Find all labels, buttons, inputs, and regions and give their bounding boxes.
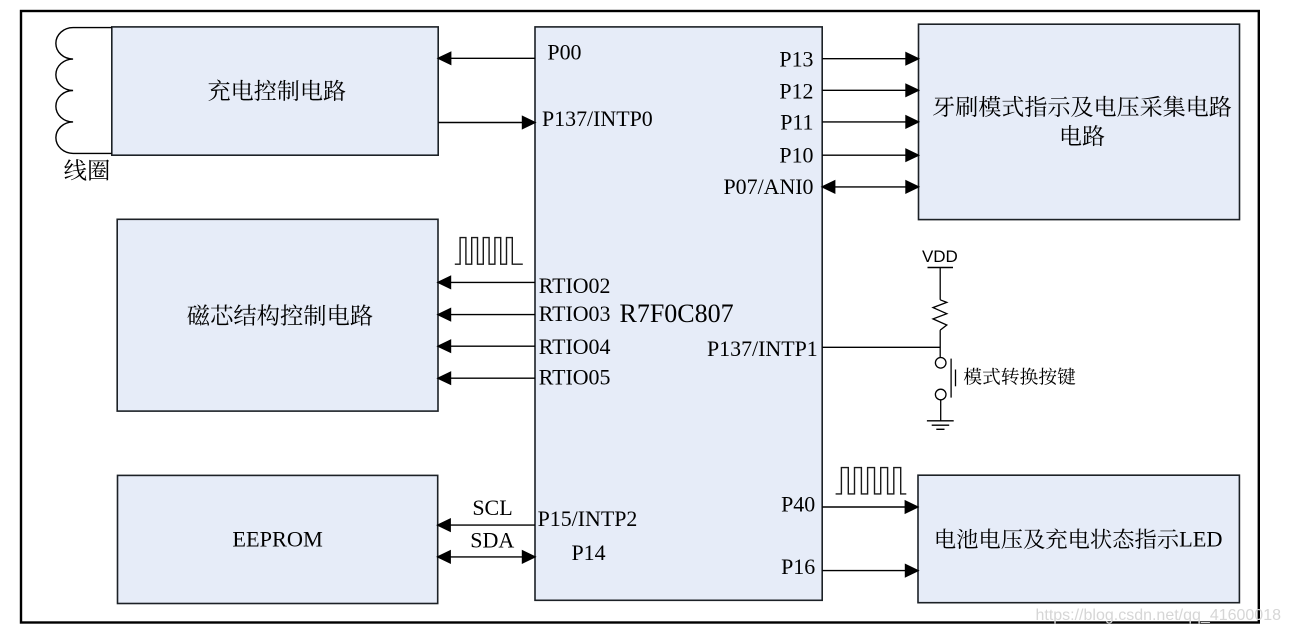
svg-text:VDD: VDD: [922, 247, 958, 266]
resistor R1: [933, 300, 947, 330]
svg-text:P40: P40: [781, 492, 815, 517]
svg-text:P00: P00: [547, 39, 581, 64]
wire SCL: [438, 519, 535, 531]
svg-text:EEPROM: EEPROM: [232, 526, 323, 551]
wire RTIO02: [438, 276, 535, 288]
wire P137/INTP1 to button node: [822, 346, 940, 348]
svg-text:P14: P14: [572, 540, 606, 565]
wire charge block to P137/INTP0: [438, 117, 535, 129]
label toothbrush-mode line2: [1062, 125, 1105, 146]
wire RTIO04: [438, 340, 535, 352]
block toothbrush mode indication and voltage sampling circuit: [919, 24, 1240, 219]
label toothbrush-mode line1: [933, 96, 1231, 117]
wire switch to ground: [940, 400, 942, 421]
svg-text:P15/INTP2: P15/INTP2: [538, 506, 638, 531]
svg-text:P11: P11: [780, 110, 813, 135]
svg-text:RTIO05: RTIO05: [539, 365, 611, 390]
svg-text:P16: P16: [781, 554, 815, 579]
inductor coil L1: [56, 28, 112, 154]
pulse waveform left: [455, 238, 523, 265]
svg-text:SDA: SDA: [470, 527, 514, 552]
block charge-control circuit: [112, 27, 438, 155]
wire SDA: [438, 551, 535, 563]
wire P16: [822, 565, 918, 577]
svg-text:P137/INTP1: P137/INTP1: [707, 336, 818, 361]
wire resistor to switch, node P137/INTP1: [939, 330, 941, 357]
push-button switch S1 contact bottom: [935, 389, 946, 400]
svg-text:P12: P12: [779, 78, 813, 103]
MCU U1 R7F0C807: [535, 27, 822, 600]
wire VDD to resistor: [939, 268, 941, 300]
wire P07/ANI0 bidirectional: [822, 181, 918, 193]
svg-text:RTIO03: RTIO03: [539, 301, 611, 326]
wire RTIO03: [438, 309, 535, 321]
label coil: [64, 159, 109, 180]
svg-text:SCL: SCL: [472, 495, 512, 520]
svg-text:R7F0C807: R7F0C807: [620, 299, 734, 328]
push-button actuator bar: [950, 359, 952, 398]
pulse waveform right: [836, 468, 907, 494]
wire P12: [822, 84, 918, 96]
label mode switch button: [964, 368, 1076, 385]
wire P10: [822, 149, 918, 161]
label battery-LED cjk part: [937, 528, 1179, 549]
VDD rail bar: [928, 267, 954, 269]
svg-text:RTIO02: RTIO02: [539, 273, 611, 298]
block EEPROM: [118, 475, 438, 603]
wire P13: [822, 53, 918, 65]
label charge-control circuit: [208, 80, 345, 101]
push-button actuator stem: [955, 370, 957, 387]
svg-text:LED: LED: [1179, 526, 1222, 551]
wire P00 to charge block: [438, 52, 535, 64]
wire P11: [822, 116, 918, 128]
svg-text:P10: P10: [779, 142, 813, 167]
svg-text:P07/ANI0: P07/ANI0: [724, 174, 814, 199]
push-button switch S1 contact top: [935, 358, 946, 369]
label core-structure control circuit: [187, 304, 372, 325]
svg-text:P13: P13: [779, 47, 813, 72]
wire P40: [822, 501, 918, 513]
wire RTIO05: [438, 372, 535, 384]
svg-text:P137/INTP0: P137/INTP0: [542, 106, 653, 131]
block core-structure control circuit: [117, 219, 438, 411]
svg-text:RTIO04: RTIO04: [539, 334, 611, 359]
block battery voltage and charge status LED: [918, 475, 1239, 603]
ground symbol: [927, 421, 954, 430]
svg-text:https://blog.csdn.net/qq_41600: https://blog.csdn.net/qq_41600018: [1035, 607, 1281, 624]
